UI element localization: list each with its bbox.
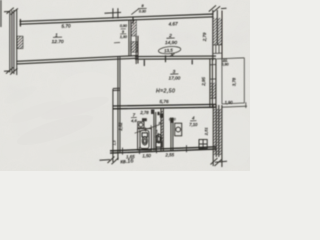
closet tiny labels — [114, 24, 127, 43]
break symbol bottom-left — [100, 157, 119, 165]
room 3 label 3/17.00 — [169, 69, 181, 80]
interior wall bath/WC — [154, 112, 156, 151]
break symbol bottom-left — [4, 67, 17, 74]
svg-text:1,30: 1,30 — [120, 35, 127, 39]
svg-text:2,51: 2,51 — [204, 127, 209, 136]
small dark marks above bath — [142, 110, 154, 122]
svg-text:17,00: 17,00 — [169, 75, 181, 80]
tiny rotated marks on left corridor wall — [113, 141, 117, 146]
height note H=2.50 — [156, 88, 175, 94]
WC toilet — [156, 134, 162, 147]
handwritten ellipse correction 13,5 — [158, 46, 181, 55]
svg-text:0,90: 0,90 — [120, 24, 127, 28]
svg-text:4,6: 4,6 — [131, 118, 137, 123]
wall: right exterior lower (kitchen) — [213, 105, 222, 168]
window room2 right — [213, 45, 222, 54]
svg-text:0,80: 0,80 — [169, 117, 176, 121]
svg-text:1,50: 1,50 — [142, 153, 151, 158]
svg-text:12.70: 12.70 — [52, 39, 64, 45]
break symbol top-left — [4, 8, 18, 15]
svg-text:H=2,50: H=2,50 — [156, 88, 175, 94]
corridor dim 2.78 — [139, 110, 149, 115]
wall: bottom exterior — [110, 147, 216, 153]
svg-text:2,6: 2,6 — [154, 134, 160, 138]
svg-text:2,95: 2,95 — [201, 77, 206, 87]
svg-text:7,10: 7,10 — [189, 122, 198, 127]
break marks on top wall at stairwell walls — [105, 8, 122, 18]
balcony label 10/0.90 — [221, 58, 229, 67]
svg-text:2,79: 2,79 — [202, 32, 207, 42]
interior wall kitchen left — [171, 118, 173, 151]
stairwell shaft walls left of room 3 — [113, 57, 120, 163]
svg-text:2,55: 2,55 — [164, 152, 174, 157]
corridor dim 2.52 rotated — [118, 122, 123, 132]
dimension 2.79 rotated — [202, 32, 207, 42]
closet wall column between room 1 and room 2 — [129, 20, 138, 64]
svg-text:0,90: 0,90 — [221, 62, 229, 66]
svg-text:1,90: 1,90 — [225, 100, 234, 105]
bath toilet overlap blob — [142, 133, 148, 145]
tick mark below ellipse — [170, 53, 175, 56]
leader label 8/0.30 above top wall — [131, 8, 146, 14]
svg-text:5,76: 5,76 — [159, 99, 169, 104]
kitchen label 4/7.10 — [189, 116, 198, 127]
scan edge artifact top-left — [0, 0, 2, 27]
window pier hatch on left wall — [17, 36, 23, 48]
wall: top exterior (rooms 1 and 2) — [20, 14, 214, 27]
svg-text:кв.16: кв.16 — [120, 158, 134, 165]
handwritten note кв.16 — [120, 158, 134, 165]
svg-text:0.30: 0.30 — [139, 10, 146, 14]
svg-text:14,90: 14,90 — [165, 40, 177, 46]
dimension 2.95 rotated — [201, 77, 206, 87]
break symbol top-right — [209, 5, 227, 12]
svg-text:4.67: 4.67 — [169, 21, 179, 26]
bath sink — [138, 122, 144, 128]
kitchen door label 0,80 — [169, 117, 176, 121]
closet hatch lower — [131, 42, 138, 53]
wall: corridor top / room3 bottom — [113, 104, 216, 108]
paper background — [0, 0, 250, 171]
door jamb blobs on WC wall — [157, 112, 173, 123]
break symbol bottom-right — [211, 158, 228, 166]
balcony right outline — [217, 58, 248, 108]
tiny bath labels — [154, 122, 161, 138]
svg-text:5: 5 — [156, 130, 158, 134]
room 2 label 2/14.90 — [165, 33, 177, 46]
diagonal partition line with ticks in bath area — [135, 124, 160, 134]
dimension 4.67 — [169, 21, 179, 26]
balcony dim 1.90 — [225, 100, 234, 105]
kitchen sink — [175, 123, 182, 136]
closet hatch upper — [131, 20, 136, 36]
wall: right exterior mid (room 3) — [210, 59, 216, 109]
svg-text:1,3: 1,3 — [113, 141, 117, 146]
dimension 5.70 — [61, 23, 71, 28]
faint smudges — [2, 72, 253, 166]
svg-text:2,78: 2,78 — [139, 110, 149, 115]
kitchen dim 2.51 rotated — [204, 127, 209, 136]
stove — [199, 140, 207, 149]
wall: between room 2 and room 3 — [135, 55, 216, 66]
bottom wall ticks — [123, 145, 187, 154]
svg-text:13,5: 13,5 — [164, 48, 174, 54]
corridor label 7/4,6 — [131, 112, 137, 123]
svg-text:3,78: 3,78 — [231, 77, 236, 86]
balcony dim 3.78 rotated — [231, 77, 236, 86]
dimension 5.76 — [159, 99, 169, 104]
svg-text:6: 6 — [159, 122, 161, 126]
wall: right exterior upper (room 2) — [213, 10, 222, 61]
wall: left exterior of room 1 — [10, 10, 17, 76]
wall: room1 bottom — [17, 56, 138, 64]
svg-text:9: 9 — [122, 30, 124, 34]
bottom dims 1.65 1.50 2.55 — [126, 152, 175, 159]
svg-text:2,52: 2,52 — [118, 122, 123, 132]
interior wall WC hatched — [161, 109, 163, 151]
bathtub — [138, 129, 152, 151]
room 1 label 1/12.70 — [52, 32, 64, 44]
svg-text:5.70: 5.70 — [61, 23, 71, 28]
